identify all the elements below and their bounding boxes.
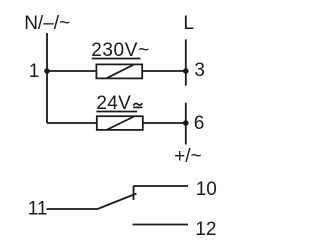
wire terminal 12 contact xyxy=(133,224,189,226)
wire terminal1 to coil 230V xyxy=(47,70,96,72)
wire contact to terminal 10 xyxy=(134,185,189,187)
relay coil K2 24V box xyxy=(97,116,143,130)
wire coil 230V to terminal 3 xyxy=(142,70,186,72)
svg-text:11: 11 xyxy=(28,199,48,220)
value label AC/DC tilde of 24V xyxy=(133,103,142,105)
wire coil 24V to terminal 6 xyxy=(143,122,186,124)
svg-text:3: 3 xyxy=(194,60,205,81)
wire bar under tilde xyxy=(133,106,142,108)
svg-text:12: 12 xyxy=(195,219,216,240)
wire terminal 6 vertical lead xyxy=(185,103,187,145)
wire left vertical bus xyxy=(46,33,48,123)
relay coil K1 230V box xyxy=(96,64,142,78)
svg-text:L: L xyxy=(183,13,194,34)
node junction dot terminal 6 xyxy=(183,120,189,126)
svg-text:+/~: +/~ xyxy=(174,146,201,167)
svg-text:N/–/~: N/–/~ xyxy=(24,13,70,34)
wire common 11 xyxy=(47,208,98,210)
svg-text:1: 1 xyxy=(29,61,40,82)
wire left bus corner to coil 24V xyxy=(47,122,97,124)
switch fixed contact stub xyxy=(133,186,135,200)
svg-text:6: 6 xyxy=(194,113,205,134)
svg-text:10: 10 xyxy=(196,179,217,200)
wire underline of 24V xyxy=(96,111,137,113)
switch movable blade xyxy=(98,194,137,210)
node junction dot terminal 3 xyxy=(183,68,189,74)
wire underline of 230V xyxy=(92,58,141,60)
node junction dot terminal 1 xyxy=(44,68,50,74)
wire terminal 3 vertical lead xyxy=(185,39,187,85)
